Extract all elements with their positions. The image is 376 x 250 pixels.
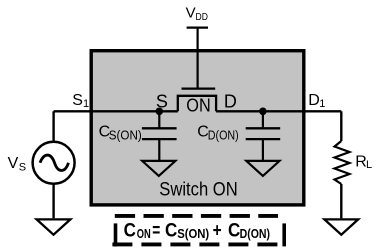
capacitor CS(ON) xyxy=(142,128,177,139)
wire S1 to VS source xyxy=(52,111,54,142)
transistor Q1 channel xyxy=(178,96,216,112)
formula CON = CS(ON) + CD(ON) xyxy=(124,220,270,241)
node S junction dot xyxy=(156,108,164,116)
wire RL to ground xyxy=(340,184,342,218)
svg-text:D(ON): D(ON) xyxy=(240,226,270,241)
wire drain to D1 xyxy=(216,110,341,112)
dashed formula box bottom edge xyxy=(112,242,284,246)
wire CD(ON) to ground xyxy=(262,139,264,160)
svg-text:S: S xyxy=(19,162,26,174)
wire CS(ON) to ground xyxy=(158,139,160,160)
svg-text:D(ON): D(ON) xyxy=(208,128,239,142)
svg-text:Switch ON: Switch ON xyxy=(159,179,237,200)
node D junction dot xyxy=(259,108,267,116)
switch body box U1 xyxy=(91,51,304,205)
svg-text:D: D xyxy=(224,91,237,111)
svg-text:DD: DD xyxy=(196,11,209,23)
dashed formula box right bracket xyxy=(282,223,286,246)
wire S node to CS(ON) xyxy=(158,111,160,127)
svg-text:1: 1 xyxy=(319,98,325,110)
wire D1 to RL xyxy=(340,111,342,141)
capacitor CD(ON) xyxy=(246,128,281,139)
svg-text:D: D xyxy=(308,92,320,109)
ground (below CD(ON)) xyxy=(246,161,279,176)
ground (below RL) xyxy=(324,219,358,234)
wire VS to ground xyxy=(52,184,54,219)
svg-text:V: V xyxy=(186,4,196,21)
svg-text:V: V xyxy=(8,155,19,172)
wire S1 to source xyxy=(54,110,178,112)
transistor Q1 gate bar xyxy=(182,87,216,89)
VDD supply bar xyxy=(187,26,208,28)
wire VDD to gate xyxy=(197,28,199,88)
svg-text:+: + xyxy=(213,220,222,241)
svg-text:S(ON): S(ON) xyxy=(177,226,209,241)
svg-text:C: C xyxy=(165,220,178,241)
svg-text:S: S xyxy=(72,92,83,109)
ground (below CS(ON)) xyxy=(142,161,175,176)
svg-text:L: L xyxy=(366,159,372,171)
svg-text:ON: ON xyxy=(137,226,151,241)
svg-text:C: C xyxy=(124,220,137,241)
source VS circle xyxy=(33,142,75,184)
svg-text:1: 1 xyxy=(83,98,89,110)
wire D node to CD(ON) xyxy=(262,111,264,127)
dashed formula box top edge xyxy=(115,214,278,218)
ground (below VS) xyxy=(37,219,71,234)
resistor RL xyxy=(335,141,350,184)
dashed formula box left bracket xyxy=(114,223,118,246)
svg-text:ON: ON xyxy=(186,95,210,115)
svg-text:S(ON): S(ON) xyxy=(109,128,142,142)
source VS sine wave xyxy=(40,155,69,170)
svg-text:=: = xyxy=(152,220,160,241)
